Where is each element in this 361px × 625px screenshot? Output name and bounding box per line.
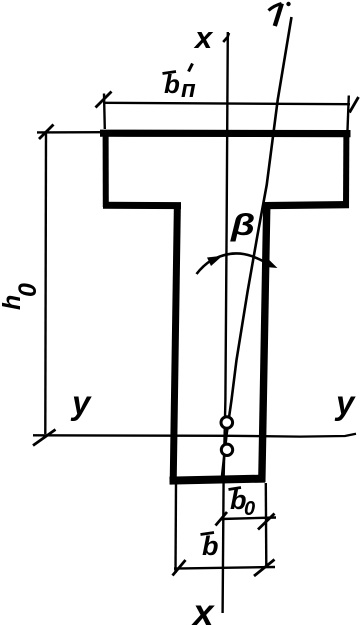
b left tick (173, 560, 186, 576)
b0 left tick (216, 512, 228, 526)
centroid circle lower (221, 444, 232, 455)
T-section right wing bottom (263, 205, 349, 206)
T-section flange right edge (343, 130, 349, 208)
svg-text:b: b (202, 531, 219, 561)
dimension b line (174, 567, 275, 569)
beta angle arc with arrowheads (197, 253, 278, 274)
svg-text:y: y (334, 384, 356, 421)
centroid circle upper (221, 417, 233, 429)
dimension h0 vertical line (44, 131, 47, 434)
axis 1 slanted line (222, 17, 292, 481)
svg-text:x: x (193, 20, 214, 55)
b0 right tick (258, 514, 275, 530)
svg-text:0: 0 (14, 283, 42, 297)
T-section left wing bottom (103, 202, 181, 209)
b left extension line (174, 483, 177, 573)
svg-text:β: β (230, 208, 255, 242)
T-section web right edge (262, 204, 267, 482)
b right tick (254, 560, 275, 577)
label b0 (229, 485, 256, 520)
b'п left extension (103, 94, 106, 130)
h0 top extension line (37, 131, 104, 134)
y axis line (33, 434, 356, 437)
b'п left tick (96, 92, 112, 108)
b'п right tick (350, 97, 359, 113)
T-section web bottom bar (170, 479, 266, 481)
svg-text:п: п (181, 76, 196, 103)
label b'п (163, 64, 197, 104)
x axis centerline (223, 32, 229, 613)
svg-text:y: y (70, 384, 92, 421)
label h0 (0, 283, 42, 310)
b0 / b right extension line (265, 483, 268, 568)
svg-text:x: x (191, 592, 215, 625)
T-section flange left edge (103, 130, 109, 207)
label 1 (269, 2, 291, 26)
T-section flange top bar (100, 130, 351, 138)
b'п right extension (348, 96, 349, 131)
svg-text:0: 0 (244, 498, 255, 520)
label b (201, 531, 219, 561)
dimension b'п line (103, 103, 350, 104)
dimension b0 line (221, 518, 276, 520)
h0 bottom tick (33, 430, 56, 446)
h0 top tick (39, 125, 54, 140)
T-section web left edge (173, 203, 177, 482)
